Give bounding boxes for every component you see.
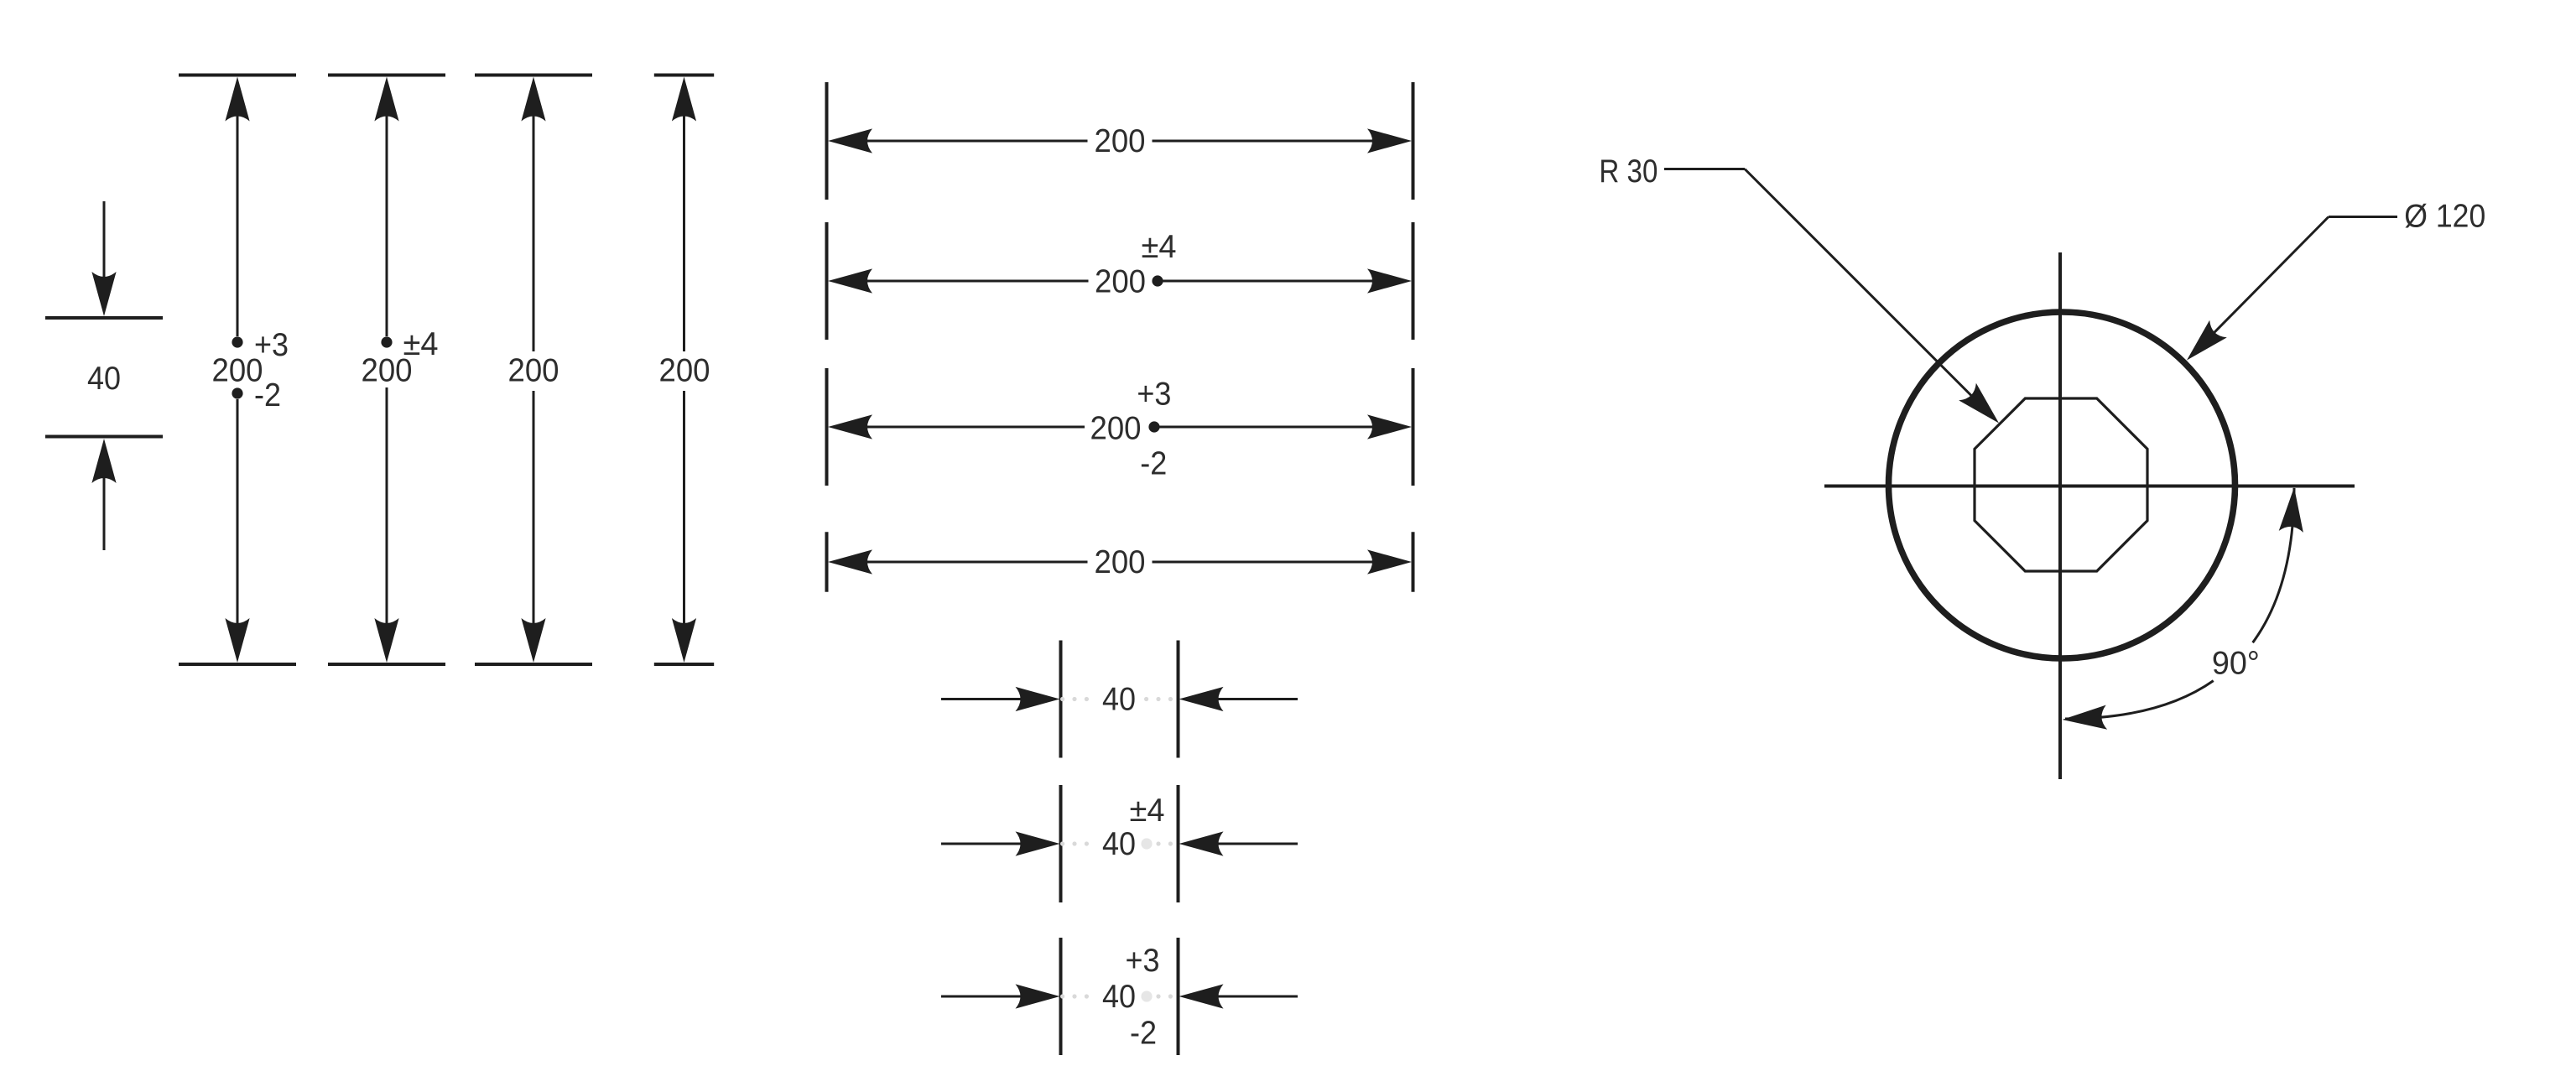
svg-text:200: 200 — [1090, 411, 1142, 447]
svg-text:+3: +3 — [1137, 377, 1171, 413]
svg-text:-2: -2 — [1140, 446, 1167, 482]
svg-text:R 30: R 30 — [1599, 153, 1657, 190]
svg-text:40: 40 — [1102, 682, 1136, 718]
svg-text:±4: ±4 — [1142, 229, 1177, 265]
svg-text:-2: -2 — [1130, 1016, 1157, 1052]
svg-text:40: 40 — [1102, 826, 1136, 862]
svg-text:±4: ±4 — [403, 326, 439, 362]
svg-text:90°: 90° — [2212, 646, 2260, 682]
svg-text:±4: ±4 — [1130, 793, 1165, 829]
svg-text:Ø 120: Ø 120 — [2404, 199, 2485, 235]
svg-text:+3: +3 — [1126, 943, 1160, 979]
svg-text:40: 40 — [87, 361, 121, 397]
svg-text:+3: +3 — [254, 327, 289, 363]
svg-text:200: 200 — [1095, 264, 1146, 300]
svg-text:200: 200 — [659, 353, 710, 389]
svg-text:200: 200 — [508, 353, 559, 389]
svg-text:200: 200 — [1095, 123, 1146, 159]
svg-text:-2: -2 — [254, 377, 281, 413]
svg-text:40: 40 — [1102, 979, 1136, 1015]
svg-text:200: 200 — [1095, 544, 1146, 580]
